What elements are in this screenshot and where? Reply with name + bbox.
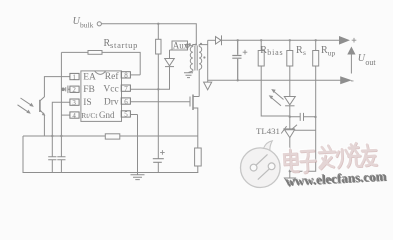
svg-text:s: s (303, 48, 306, 57)
svg-text:Aux: Aux (173, 41, 189, 51)
svg-text:bulk: bulk (80, 20, 94, 29)
svg-text:Vcc: Vcc (103, 84, 118, 94)
svg-text:3: 3 (72, 99, 76, 107)
svg-text:2: 2 (72, 86, 76, 94)
svg-text:startup: startup (110, 40, 138, 50)
svg-text:5: 5 (124, 111, 128, 119)
svg-text:FB: FB (83, 85, 95, 95)
svg-text:Ref: Ref (105, 71, 120, 82)
svg-text:bias: bias (267, 48, 283, 57)
svg-text:Rt/Ct: Rt/Ct (81, 111, 98, 120)
svg-text:out: out (365, 58, 376, 67)
svg-text:1: 1 (72, 73, 76, 81)
svg-text:R: R (296, 45, 303, 56)
svg-text:Gnd: Gnd (99, 110, 115, 120)
svg-text:IS: IS (83, 98, 91, 108)
svg-text:EA: EA (83, 72, 96, 82)
svg-text:R: R (260, 45, 267, 56)
svg-text:7: 7 (124, 85, 128, 93)
svg-text:Drv: Drv (104, 98, 119, 108)
svg-text:6: 6 (124, 98, 128, 106)
svg-text:TL431: TL431 (256, 126, 280, 136)
svg-text:8: 8 (124, 72, 128, 80)
svg-text:4: 4 (72, 112, 76, 120)
svg-text:up: up (328, 48, 336, 57)
